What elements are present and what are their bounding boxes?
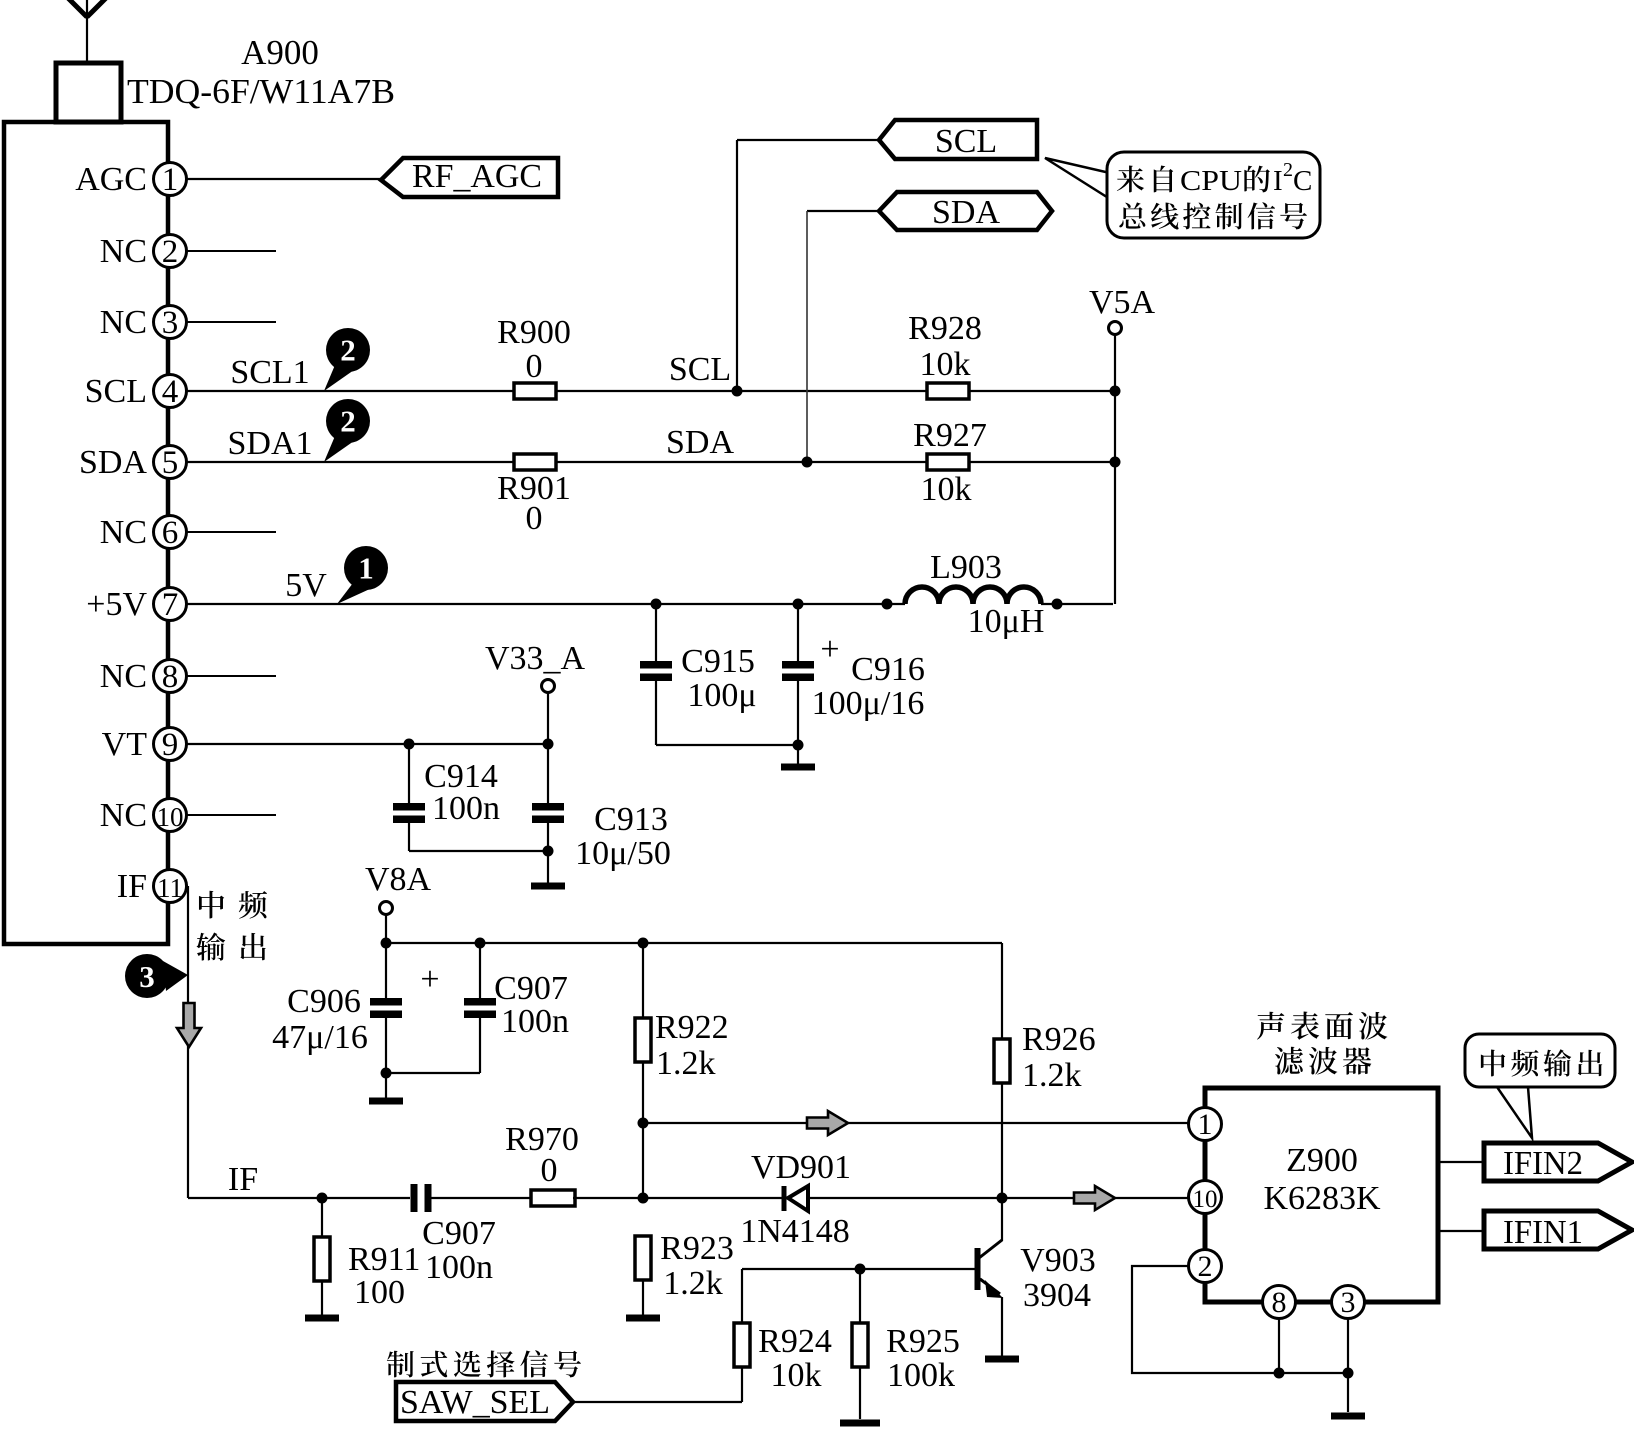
svg-text:2: 2 bbox=[340, 333, 356, 368]
svg-text:C913: C913 bbox=[594, 801, 668, 838]
svg-text:1: 1 bbox=[162, 162, 179, 198]
svg-text:R924: R924 bbox=[758, 1323, 832, 1360]
svg-text:C906: C906 bbox=[287, 983, 361, 1020]
svg-text:2: 2 bbox=[340, 404, 356, 439]
svg-text:R922: R922 bbox=[655, 1009, 729, 1046]
svg-text:10k: 10k bbox=[920, 346, 971, 383]
svg-text:IF: IF bbox=[117, 868, 147, 905]
svg-text:10k: 10k bbox=[921, 471, 972, 508]
svg-text:NC: NC bbox=[100, 514, 147, 551]
svg-text:2: 2 bbox=[1283, 159, 1293, 181]
svg-text:1N4148: 1N4148 bbox=[740, 1213, 850, 1250]
svg-text:7: 7 bbox=[162, 587, 179, 623]
svg-text:1: 1 bbox=[358, 551, 374, 586]
svg-text:100n: 100n bbox=[432, 790, 500, 827]
svg-text:5V: 5V bbox=[285, 567, 327, 604]
svg-text:Z900: Z900 bbox=[1286, 1142, 1358, 1179]
svg-text:2: 2 bbox=[1198, 1250, 1213, 1283]
svg-text:SDA1: SDA1 bbox=[227, 425, 312, 462]
svg-text:6: 6 bbox=[162, 515, 179, 551]
svg-text:R925: R925 bbox=[886, 1323, 960, 1360]
svg-text:C915: C915 bbox=[681, 643, 755, 680]
svg-text:+: + bbox=[420, 961, 439, 998]
svg-text:10: 10 bbox=[1193, 1186, 1218, 1213]
svg-text:R900: R900 bbox=[497, 314, 571, 351]
svg-text:V33_A: V33_A bbox=[485, 640, 586, 677]
svg-text:NC: NC bbox=[100, 304, 147, 341]
svg-text:R926: R926 bbox=[1022, 1021, 1096, 1058]
svg-text:SAW_SEL: SAW_SEL bbox=[400, 1384, 550, 1421]
svg-text:NC: NC bbox=[100, 797, 147, 834]
svg-text:R927: R927 bbox=[913, 417, 987, 454]
svg-text:10: 10 bbox=[157, 802, 184, 832]
svg-text:3: 3 bbox=[1341, 1286, 1356, 1319]
svg-text:NC: NC bbox=[100, 658, 147, 695]
svg-text:0: 0 bbox=[526, 500, 543, 537]
svg-text:SCL: SCL bbox=[669, 351, 731, 388]
svg-text:100n: 100n bbox=[425, 1249, 493, 1286]
svg-text:9: 9 bbox=[162, 727, 179, 763]
svg-text:SDA: SDA bbox=[79, 444, 147, 481]
svg-text:4: 4 bbox=[162, 374, 179, 410]
svg-text:3904: 3904 bbox=[1023, 1277, 1091, 1314]
svg-text:VT: VT bbox=[102, 726, 148, 763]
svg-text:8: 8 bbox=[1272, 1286, 1287, 1319]
svg-text:R911: R911 bbox=[348, 1241, 420, 1278]
svg-text:RF_AGC: RF_AGC bbox=[412, 158, 542, 195]
svg-text:SCL: SCL bbox=[935, 123, 997, 160]
svg-text:R923: R923 bbox=[660, 1230, 734, 1267]
svg-text:47μ/16: 47μ/16 bbox=[272, 1019, 368, 1056]
svg-text:IF: IF bbox=[228, 1161, 258, 1198]
svg-text:2: 2 bbox=[162, 234, 179, 270]
svg-text:V5A: V5A bbox=[1089, 284, 1156, 321]
svg-text:100μ/16: 100μ/16 bbox=[812, 685, 925, 722]
svg-text:A900: A900 bbox=[241, 33, 319, 72]
svg-text:100μ: 100μ bbox=[687, 677, 756, 714]
svg-text:V8A: V8A bbox=[365, 861, 432, 898]
svg-text:10k: 10k bbox=[771, 1357, 822, 1394]
svg-text:TDQ-6F/W11A7B: TDQ-6F/W11A7B bbox=[127, 72, 395, 111]
svg-text:10μ/50: 10μ/50 bbox=[575, 835, 671, 872]
svg-text:1.2k: 1.2k bbox=[656, 1045, 716, 1082]
svg-text:SDA: SDA bbox=[932, 194, 1000, 231]
svg-text:C: C bbox=[1293, 165, 1312, 197]
svg-text:IFIN1: IFIN1 bbox=[1503, 1214, 1583, 1251]
svg-text:10μH: 10μH bbox=[968, 603, 1045, 640]
svg-text:V903: V903 bbox=[1020, 1242, 1096, 1279]
svg-text:SDA: SDA bbox=[666, 424, 734, 461]
svg-text:0: 0 bbox=[526, 348, 543, 385]
svg-text:3: 3 bbox=[162, 305, 179, 341]
svg-text:0: 0 bbox=[541, 1152, 558, 1189]
svg-text:AGC: AGC bbox=[75, 161, 147, 198]
svg-text:5: 5 bbox=[162, 445, 179, 481]
svg-text:IFIN2: IFIN2 bbox=[1503, 1145, 1583, 1182]
svg-text:100: 100 bbox=[354, 1274, 405, 1311]
svg-text:I: I bbox=[1273, 165, 1283, 197]
svg-text:C907: C907 bbox=[422, 1215, 496, 1252]
svg-text:3: 3 bbox=[139, 959, 155, 994]
svg-text:NC: NC bbox=[100, 233, 147, 270]
svg-text:SCL1: SCL1 bbox=[230, 354, 309, 391]
svg-text:1: 1 bbox=[1198, 1108, 1213, 1141]
svg-text:+: + bbox=[820, 631, 839, 668]
svg-text:C907: C907 bbox=[494, 970, 568, 1007]
svg-text:+5V: +5V bbox=[86, 586, 147, 623]
svg-text:100k: 100k bbox=[887, 1357, 955, 1394]
svg-text:VD901: VD901 bbox=[751, 1149, 851, 1186]
svg-text:K6283K: K6283K bbox=[1263, 1180, 1381, 1217]
svg-text:100n: 100n bbox=[501, 1003, 569, 1040]
svg-text:11: 11 bbox=[157, 873, 183, 903]
svg-text:CPU: CPU bbox=[1180, 165, 1242, 197]
svg-text:C916: C916 bbox=[851, 651, 925, 688]
svg-text:1.2k: 1.2k bbox=[663, 1265, 723, 1302]
svg-text:8: 8 bbox=[162, 659, 179, 695]
svg-text:L903: L903 bbox=[930, 549, 1002, 586]
svg-text:R928: R928 bbox=[908, 310, 982, 347]
svg-text:SCL: SCL bbox=[85, 373, 147, 410]
svg-text:1.2k: 1.2k bbox=[1022, 1057, 1082, 1094]
